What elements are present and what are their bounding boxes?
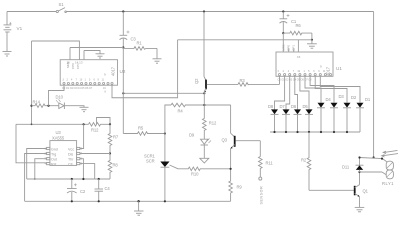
svg-text:MR9: MR9 — [282, 44, 286, 51]
ground (Q1) — [355, 207, 365, 211]
U1 bottom pin numbers — [278, 70, 327, 82]
wire relay bottom — [360, 171, 383, 173]
resistor R11 — [259, 157, 263, 178]
wire emitter tie — [123, 92, 204, 94]
U2 top pin stub 3 — [83, 51, 85, 60]
node C2 bottom — [71, 200, 73, 202]
diode D4 — [317, 103, 325, 132]
ground (D9) — [200, 158, 209, 163]
svg-text:3: 3 — [278, 70, 280, 73]
wire U1 pin9 to D1 — [320, 76, 360, 103]
svg-text:R1: R1 — [137, 41, 143, 46]
led arrows D10 — [56, 99, 61, 102]
U1 bottom pin circles — [278, 74, 331, 76]
wire R1 to ground — [156, 48, 158, 58]
node rail D6 — [296, 131, 298, 133]
wire U1 pin2 to D8 — [275, 76, 285, 109]
diode D10 — [59, 103, 65, 110]
svg-text:D6: D6 — [291, 104, 297, 109]
svg-text:10: 10 — [80, 79, 83, 82]
svg-text:U1: U1 — [336, 66, 342, 71]
svg-text:D1: D1 — [365, 97, 371, 102]
wire U1 pin8 to D2 — [315, 76, 347, 103]
diode D1 — [356, 103, 364, 132]
wire supply right drop — [373, 12, 375, 158]
wire supply drop center — [122, 48, 124, 134]
svg-text:U2: U2 — [120, 69, 126, 74]
U3 pin numbers — [45, 147, 83, 166]
svg-text:R10: R10 — [191, 172, 199, 177]
svg-text:SCR: SCR — [146, 159, 155, 164]
U3 pin stubs left — [47, 147, 50, 164]
svg-text:3: 3 — [63, 79, 65, 82]
diode D6 — [294, 109, 302, 132]
node R6 ground — [311, 39, 313, 41]
svg-text:5: 5 — [89, 79, 91, 82]
svg-text:RLY1: RLY1 — [382, 181, 394, 186]
svg-text:7: 7 — [76, 79, 78, 82]
node SCR cathode bus — [164, 200, 166, 202]
led D9 — [201, 139, 212, 159]
svg-text:R11: R11 — [266, 161, 274, 166]
svg-text:D5: D5 — [303, 104, 309, 109]
svg-text:V1: V1 — [17, 26, 23, 31]
svg-text:2: 2 — [67, 79, 69, 82]
relay RLY1 — [382, 150, 398, 178]
resistor R13 — [203, 105, 207, 139]
svg-text:7: 7 — [293, 70, 295, 73]
svg-text:1: 1 — [85, 79, 87, 82]
node SCR anode — [164, 132, 166, 134]
svg-text:R4: R4 — [178, 109, 184, 114]
wire U1 pin5 to D5 — [300, 76, 309, 109]
svg-text:9: 9 — [98, 79, 100, 82]
wire U2 clock feed — [32, 41, 80, 60]
wire U2 clock out to U1 — [112, 40, 178, 98]
node C1 bottom — [282, 32, 284, 34]
svg-text:C4: C4 — [105, 186, 111, 191]
ground (R1) — [153, 59, 162, 63]
resistor R12 — [89, 123, 111, 127]
svg-text:R9: R9 — [237, 184, 243, 189]
svg-text:D4: D4 — [326, 97, 332, 102]
node rail D3 — [333, 131, 335, 133]
svg-text:9: 9 — [104, 73, 106, 77]
node top Q2 — [203, 10, 205, 12]
wire Gnd pin net — [27, 149, 47, 180]
wire U2 to U1 clock net — [178, 39, 312, 41]
capacitor C3 — [120, 31, 130, 48]
wire C3 drop — [122, 12, 124, 36]
wire top rail left — [7, 11, 56, 13]
wire top rail right of S1 — [66, 11, 373, 13]
ground (R6) — [307, 44, 317, 48]
wire bottom bus — [25, 200, 231, 202]
ground (battery) — [3, 52, 12, 57]
wire left drop to R14 — [31, 41, 33, 124]
diode D2 — [343, 103, 351, 132]
svg-text:Trg: Trg — [51, 152, 56, 156]
svg-text:R3: R3 — [240, 78, 246, 83]
svg-text:6: 6 — [94, 79, 96, 82]
svg-text:8: 8 — [105, 91, 107, 94]
svg-text:4: 4 — [288, 70, 290, 73]
node Thr bus — [82, 178, 84, 180]
resistor R10 — [178, 167, 231, 171]
svg-text:D10: D10 — [56, 95, 64, 100]
node R12 left — [83, 123, 85, 125]
wire U2 pin stub top1 — [69, 48, 71, 60]
terminal SENSOR — [259, 177, 262, 180]
svg-text:Q3: Q3 — [222, 138, 228, 143]
U1 top pin stubs — [289, 49, 294, 53]
node C2 top — [71, 178, 73, 180]
diode D5 — [305, 109, 313, 132]
wire Thr net — [80, 159, 84, 179]
svg-text:Out: Out — [51, 158, 57, 162]
node C4 top — [98, 178, 100, 180]
wire U1 pin6 to D4 — [305, 76, 321, 103]
capacitor C2 — [67, 179, 77, 201]
wire U1 top pin feed — [297, 40, 299, 52]
svg-text:Vcc: Vcc — [68, 147, 74, 151]
svg-text:SENSOR: SENSOR — [260, 186, 264, 205]
wire U1 pin4 to D6 — [295, 76, 298, 109]
U2 bottom pin numbers — [62, 79, 107, 94]
transistor Q1 — [355, 172, 360, 207]
node Q2 emitter — [203, 104, 205, 106]
svg-text:R5: R5 — [138, 125, 144, 130]
svg-text:Thr: Thr — [68, 158, 74, 162]
node D10 anode — [47, 105, 49, 107]
wire U1 pin3 to D7 — [286, 76, 290, 109]
node emitter tie — [203, 92, 205, 94]
node relay top — [373, 156, 375, 158]
svg-text:CP1: CP1 — [292, 45, 296, 51]
svg-text:S1: S1 — [59, 2, 65, 7]
wire Dis — [80, 153, 110, 155]
svg-text:Gnd: Gnd — [51, 147, 58, 151]
svg-text:Ctl: Ctl — [68, 162, 73, 166]
U3 pin stubs right — [77, 147, 80, 164]
wire D10 to ground — [64, 106, 84, 108]
svg-text:D7: D7 — [280, 104, 286, 109]
node top C3 — [122, 10, 124, 12]
svg-text:D8: D8 — [268, 104, 274, 109]
diode D8 — [271, 109, 279, 132]
wire R6 to ground — [311, 40, 313, 44]
U1 top pin labels — [282, 44, 323, 68]
svg-text:4017: 4017 — [111, 66, 116, 76]
svg-text:9: 9 — [318, 70, 320, 73]
wire U2 pin to D10 — [49, 86, 65, 106]
diode D7 — [282, 109, 290, 132]
node R14 left — [30, 105, 32, 107]
wire U2 gnd pin — [84, 51, 100, 54]
svg-text:D9: D9 — [189, 132, 195, 137]
resistor R3 — [238, 83, 280, 87]
svg-text:15: 15 — [67, 61, 71, 65]
wire R4 feed — [165, 105, 171, 134]
svg-text:CP0: CP0 — [287, 45, 291, 51]
wire diode rail — [270, 131, 360, 133]
node D11 top — [358, 156, 360, 158]
svg-text:O0 O1 O2 O3 O4 O5 O6 O7: O0 O1 O2 O3 O4 O5 O6 O7 — [62, 87, 93, 90]
svg-text:9: 9 — [320, 65, 322, 69]
IC U1 4017 — [276, 52, 333, 76]
svg-text:Rst: Rst — [51, 162, 56, 166]
svg-text:Dis: Dis — [68, 152, 73, 156]
node Dis — [109, 152, 111, 154]
resistor R9 — [229, 169, 233, 202]
node rail D5 — [308, 131, 310, 133]
svg-text:1: 1 — [304, 70, 306, 73]
node rail D2 — [346, 131, 348, 133]
IC U2 4017 — [60, 60, 117, 85]
node R10 right — [230, 168, 232, 170]
node Out bus — [34, 178, 36, 180]
svg-text:R2: R2 — [301, 158, 307, 163]
wire Trg pin net — [25, 154, 47, 202]
svg-text:11: 11 — [102, 79, 105, 82]
svg-text:R14: R14 — [33, 100, 41, 105]
resistor R7 — [108, 124, 112, 153]
wire ground tap — [138, 201, 140, 211]
wire Vcc drop — [80, 124, 84, 148]
node U3 supply — [31, 123, 33, 125]
node R12 right — [109, 123, 111, 125]
svg-text:R12: R12 — [209, 120, 217, 125]
wire C1 to U1 pin — [282, 33, 284, 52]
svg-text:R12: R12 — [91, 127, 99, 132]
ground (main bus) — [134, 211, 144, 215]
svg-text:D3: D3 — [339, 94, 345, 99]
svg-text:14 13: 14 13 — [75, 61, 83, 65]
svg-text:16: 16 — [103, 87, 106, 90]
U2 top pin labels — [66, 61, 106, 77]
IC U3 555 — [50, 141, 77, 166]
wire Ctl net — [80, 164, 95, 179]
svg-text:R7: R7 — [113, 135, 119, 140]
svg-text:Q2: Q2 — [194, 78, 199, 84]
transistor Q2 — [204, 12, 238, 106]
svg-text:D11: D11 — [342, 165, 350, 170]
switch S1 — [56, 8, 66, 13]
resistor R5 — [123, 132, 165, 136]
wire bus mid — [27, 178, 110, 180]
resistor R14 — [32, 104, 59, 108]
U2 bottom pin circles — [63, 82, 113, 84]
diode D3 — [330, 103, 338, 132]
ground (U2) — [96, 54, 105, 58]
svg-text:R8: R8 — [113, 162, 119, 167]
diode D11 — [356, 158, 364, 173]
svg-text:C2: C2 — [80, 189, 86, 194]
capacitor C1 — [280, 12, 290, 34]
ground (D10) — [80, 107, 89, 111]
wire D11 top — [360, 158, 383, 159]
wire Rst net — [16, 124, 47, 163]
svg-text:2: 2 — [283, 70, 285, 73]
node supply tie — [122, 92, 124, 94]
node Q1 collector — [358, 171, 360, 173]
wire R3 to U1 pin — [279, 76, 281, 84]
node rail D8 — [273, 131, 275, 133]
resistor R6 — [283, 31, 312, 35]
wire R6 right drop — [311, 33, 313, 40]
wire R12 bypass loop — [97, 118, 111, 125]
wire U2 vdd feed — [70, 47, 123, 49]
resistor R4 — [171, 103, 231, 107]
wire R2 to Q1 base — [309, 189, 354, 191]
svg-text:10: 10 — [297, 70, 300, 73]
wire Out pin net — [35, 159, 47, 179]
wire U3 top net — [16, 123, 89, 125]
node rail D4 — [320, 131, 322, 133]
svg-text:D2: D2 — [351, 95, 357, 100]
svg-text:15: 15 — [297, 55, 301, 59]
capacitor C4 — [95, 179, 104, 201]
svg-text:4: 4 — [71, 79, 73, 82]
svg-text:R6: R6 — [296, 23, 302, 28]
resistor R2 — [307, 132, 311, 190]
resistor R1 — [123, 47, 157, 51]
svg-text:U3: U3 — [56, 130, 62, 135]
svg-text:XA555: XA555 — [52, 136, 65, 141]
svg-text:Q1: Q1 — [363, 188, 369, 193]
svg-text:6: 6 — [313, 70, 315, 73]
transistor Q3 — [231, 105, 261, 169]
wire Q3 base to R11 — [259, 141, 261, 157]
node rail D7 — [285, 131, 287, 133]
svg-text:5: 5 — [308, 70, 310, 73]
U3 pin texts — [51, 147, 74, 166]
resistor R8 — [108, 154, 112, 180]
node relay coil — [381, 158, 383, 160]
node bus ground tap — [137, 200, 139, 202]
node C4 bottom — [98, 200, 100, 202]
wire U1 pin7 to D3 — [310, 76, 334, 103]
thyristor SCR1 — [160, 134, 178, 202]
node C3 bottom — [122, 46, 124, 48]
node top C1 — [282, 10, 284, 12]
battery V1 — [4, 12, 12, 52]
